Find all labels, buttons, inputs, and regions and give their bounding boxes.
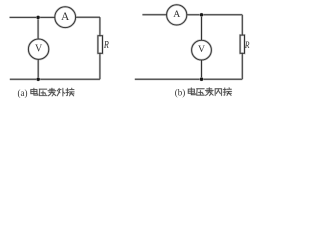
svg-text:A: A xyxy=(173,9,180,20)
svg-text:(b): (b) xyxy=(175,88,186,98)
svg-text:R: R xyxy=(103,40,109,51)
svg-text:V: V xyxy=(198,44,205,55)
svg-text:(a): (a) xyxy=(18,88,28,98)
svg-text:V: V xyxy=(35,44,43,55)
svg-text:R: R xyxy=(244,41,250,51)
svg-text:A: A xyxy=(61,11,70,23)
